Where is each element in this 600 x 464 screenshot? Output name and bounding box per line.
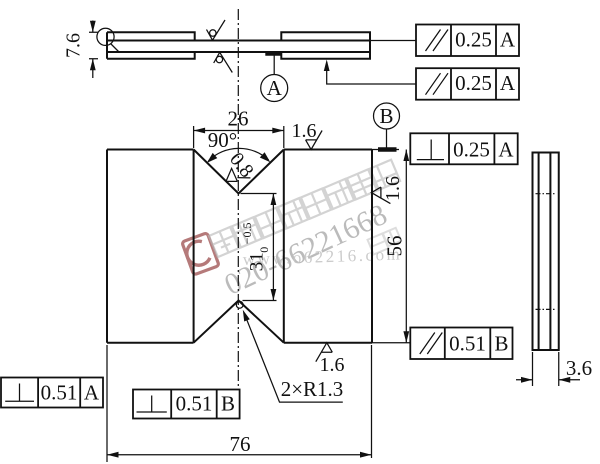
- svg-text:0.25: 0.25: [455, 71, 492, 95]
- svg-text:1.6: 1.6: [292, 120, 317, 142]
- roughness 0.8 on V face: [225, 149, 258, 182]
- dimension 26: [194, 107, 284, 149]
- watermark logo glyph: [182, 233, 219, 275]
- top V-groove: [194, 150, 284, 194]
- svg-text:1.6: 1.6: [382, 176, 404, 201]
- side view outline: [533, 153, 559, 351]
- datum A flag: [261, 54, 288, 102]
- main view outline: [107, 150, 372, 343]
- svg-text:0.25: 0.25: [453, 138, 490, 162]
- feature control frame parallel 0.25 A (top): [416, 25, 519, 57]
- svg-text:56: 56: [383, 236, 407, 257]
- roughness symbol bottom strip: [214, 52, 233, 72]
- watermark chinese text line: [209, 160, 400, 257]
- detail circle at left corner: [97, 28, 114, 45]
- svg-text:A: A: [500, 28, 516, 52]
- watermark ghost glyphs: [368, 228, 402, 255]
- svg-text:1.6: 1.6: [320, 354, 345, 376]
- feature control frame perpendicular 0.51 B (middle): [133, 390, 240, 419]
- datum B flag: [372, 103, 400, 150]
- svg-text:A: A: [498, 138, 514, 162]
- watermark www line: [242, 244, 402, 269]
- top view middle strip: [107, 41, 370, 53]
- svg-text:A: A: [500, 71, 516, 95]
- side view inner lines: [539, 153, 551, 351]
- leader 2xR1.3: [243, 310, 344, 402]
- dimension 31 with tolerance: [240, 194, 277, 301]
- svg-text:−0.5: −0.5: [240, 223, 254, 245]
- roughness symbol top strip: [207, 20, 226, 40]
- feature control frame parallel 0.25 A (lower): [416, 68, 519, 100]
- svg-text:A: A: [84, 381, 100, 405]
- feature control frame perpendicular 0.51 A (left): [1, 378, 103, 408]
- svg-text:31: 31: [246, 252, 267, 271]
- detail leader: [111, 44, 120, 53]
- V-groove edge verticals: [194, 150, 284, 343]
- top view right plate pair: [281, 32, 370, 59]
- bottom edge extension line: [372, 342, 410, 344]
- side view groove centerlines: [536, 194, 557, 310]
- dimension 76: [107, 345, 372, 462]
- bottom V-notch: [194, 301, 284, 343]
- dimension 3.6: [516, 352, 592, 386]
- svg-text:7.6: 7.6: [63, 33, 85, 58]
- svg-text:B: B: [494, 332, 508, 356]
- feature control frame parallel 0.51 B: [410, 328, 512, 360]
- dimension 7.6: [63, 21, 99, 79]
- dimension 56: [383, 150, 410, 343]
- leader to top parallelism frame: [370, 40, 416, 42]
- leader with arrow to bottom plate: [324, 60, 416, 85]
- watermark phone number: [220, 198, 393, 302]
- angle arc with arrows: [207, 148, 270, 163]
- svg-text:A: A: [267, 76, 283, 100]
- top view left plate pair: [107, 32, 195, 59]
- roughness 1.6 on top face: [292, 120, 323, 150]
- svg-text:3.6: 3.6: [566, 356, 592, 380]
- centerline vertical axis: [237, 9, 239, 389]
- svg-text:0.51: 0.51: [449, 332, 486, 356]
- R1.3 arc at bottom vertex: [236, 301, 243, 308]
- svg-text:B: B: [379, 104, 393, 128]
- svg-text:0: 0: [257, 247, 271, 253]
- roughness 1.6 on bottom face: [316, 343, 345, 376]
- roughness 1.6 on right face: [371, 176, 404, 204]
- feature control frame perpendicular 0.25 A: [410, 133, 517, 164]
- svg-text:2×R1.3: 2×R1.3: [281, 377, 344, 401]
- svg-text:76: 76: [230, 432, 251, 456]
- svg-text:26: 26: [228, 107, 249, 131]
- svg-text:0.25: 0.25: [455, 28, 492, 52]
- svg-text:B: B: [221, 392, 235, 416]
- svg-text:0.51: 0.51: [41, 381, 78, 405]
- svg-text:0.51: 0.51: [176, 392, 213, 416]
